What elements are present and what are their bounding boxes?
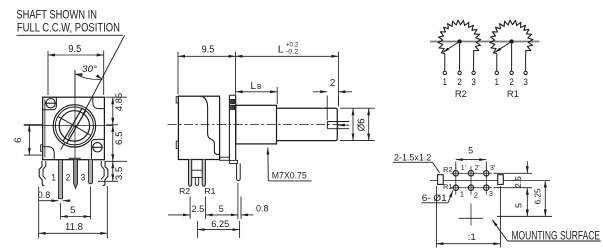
front view body outline [43, 97, 105, 160]
svg-text::1: :1 [468, 232, 476, 243]
svg-text:1: 1 [495, 77, 500, 87]
corner pocket top-left with screw [43, 97, 57, 110]
svg-text:9.5: 9.5 [68, 44, 81, 55]
corner pocket bottom-right with screw [91, 139, 104, 159]
pin 1 front [59, 160, 63, 199]
body bottom boss [69, 158, 80, 160]
svg-text:2: 2 [474, 191, 478, 200]
svg-text:3: 3 [523, 77, 528, 87]
dim 5 hole spacing [455, 162, 457, 170]
dim 6.25 side [197, 221, 199, 238]
svg-text:R1: R1 [507, 89, 519, 99]
svg-text:FULL C.C.W, POSITION: FULL C.C.W, POSITION [17, 22, 120, 34]
mounting plate [228, 95, 230, 160]
dim dia6 shaft [340, 107, 375, 109]
svg-text:1: 1 [443, 77, 448, 87]
front centerline vertical [74, 70, 76, 167]
dim 9.5 side [177, 52, 179, 95]
dim 6 front left [24, 124, 42, 126]
slot pointer arrow [338, 124, 349, 126]
svg-text:2.5: 2.5 [513, 176, 523, 188]
chassis tab sections [231, 99, 235, 103]
svg-text:L: L [251, 81, 257, 92]
svg-text:Ø6: Ø6 [356, 118, 367, 131]
svg-text:3: 3 [489, 189, 493, 198]
corner pocket bottom-left arc [43, 147, 55, 160]
leader from note to shaft slot [16, 34, 123, 36]
svg-text:B: B [257, 84, 262, 91]
dim 11.8 overall width [38, 187, 40, 239]
rect hole left 1.5x1.2 [438, 175, 444, 185]
svg-text:R2: R2 [179, 187, 191, 196]
side body internal hood curve [202, 96, 220, 154]
hole column centerlines [455, 166, 457, 195]
mounting surface line [459, 217, 484, 219]
shaft slot end [326, 122, 328, 129]
svg-text:0.8: 0.8 [38, 190, 51, 200]
svg-text:5: 5 [468, 146, 473, 157]
svg-text:3: 3 [81, 173, 86, 183]
side body left tabs [176, 97, 178, 103]
step between body and plate [220, 157, 230, 160]
side centerline [168, 124, 345, 126]
svg-text:3: 3 [471, 77, 476, 87]
R2 terminal circles [443, 71, 446, 74]
pin 3 front [89, 160, 93, 184]
shaft slot lines at 30 deg [63, 108, 83, 142]
svg-text:0.8: 0.8 [256, 204, 269, 214]
R2 terminal legs [444, 54, 446, 72]
hole row lines [450, 172, 492, 174]
front view mounting ear left [41, 144, 43, 152]
dim 2.5 side pins [189, 197, 191, 220]
svg-text:5: 5 [219, 204, 224, 214]
dim 6.25 centerline to surface [544, 181, 546, 217]
screw bottom-right [93, 143, 102, 152]
svg-text:M7X0.75: M7X0.75 [272, 170, 307, 181]
svg-text:-0.2: -0.2 [286, 49, 299, 56]
dim 5 rows to surface [526, 188, 528, 217]
svg-text:R1: R1 [204, 187, 216, 196]
R1 wiper dot and arrow [510, 39, 514, 43]
screw top-left [46, 99, 55, 108]
potentiometer symbol R1 resistive ring [490, 20, 533, 53]
svg-text:2: 2 [509, 77, 514, 87]
dim L with tolerance [337, 52, 339, 106]
svg-text:30°: 30° [82, 64, 97, 75]
support lug left front [39, 161, 44, 185]
dim LB bushing length [276, 87, 278, 104]
dim 3.5 front right [98, 180, 118, 182]
svg-text:2: 2 [66, 173, 71, 183]
svg-text:1: 1 [51, 173, 56, 183]
svg-text:1: 1 [460, 190, 464, 199]
slot cross line perpendicular [58, 116, 91, 135]
svg-text:R1: R1 [443, 182, 453, 191]
rotor inner circle [59, 111, 89, 141]
schematic bus line [430, 41, 540, 43]
rotor ring circle [55, 107, 93, 145]
mounting lug side 0.8 [237, 163, 241, 180]
svg-text:2: 2 [457, 77, 462, 87]
dim 5 side [237, 183, 239, 219]
svg-text:6.5: 6.5 [114, 131, 125, 145]
svg-text:SHAFT SHOWN IN: SHAFT SHOWN IN [16, 10, 97, 22]
R2 wiper dot and arrow [458, 39, 462, 43]
dim 6.5 front right [105, 160, 127, 162]
mounting holes 6x dia1 [453, 171, 458, 176]
dim 4.85 front right [105, 96, 127, 98]
svg-text:2.5: 2.5 [192, 204, 205, 214]
side pins R2 R1 [189, 160, 192, 187]
R1 terminal legs [496, 54, 498, 72]
svg-text:+0.2: +0.2 [286, 41, 299, 48]
svg-text:9.5: 9.5 [202, 45, 215, 56]
support lug right front [103, 161, 108, 185]
corner pocket top-right arc [93, 97, 105, 109]
side view body outline [178, 96, 219, 159]
svg-text:R2: R2 [455, 89, 467, 99]
svg-text:L: L [278, 43, 284, 55]
shaft [277, 108, 338, 140]
dim 0.8 lug [240, 197, 242, 220]
dim 2 shaft slot [326, 96, 328, 121]
boss under plate [229, 160, 237, 163]
svg-text:6.25: 6.25 [533, 188, 543, 204]
pin 2 front (center) [74, 160, 78, 189]
svg-text:MOUNTING SURFACE: MOUNTING SURFACE [512, 228, 601, 242]
dim 2.5 row spacing [494, 172, 533, 174]
middle pin between [192, 169, 203, 171]
svg-text:2-1.5x1.2: 2-1.5x1.2 [394, 153, 431, 163]
pcb centerline horizontal [430, 180, 550, 182]
R1 terminal circles [495, 71, 498, 74]
svg-text:6: 6 [13, 138, 24, 144]
slot centerline extension lower-left [68, 126, 75, 137]
dim 1 bottom [435, 186, 437, 247]
dim 5 pin span [60, 203, 62, 220]
svg-text:2': 2' [475, 163, 481, 172]
svg-text:2: 2 [330, 78, 336, 89]
dim 30 deg angle [74, 70, 76, 96]
svg-text:6.25: 6.25 [211, 219, 229, 230]
svg-text:3': 3' [490, 163, 496, 172]
svg-text:3.5: 3.5 [114, 167, 125, 181]
svg-text:R2: R2 [443, 165, 453, 174]
rotor outer circle [53, 105, 95, 147]
svg-text:11.8: 11.8 [65, 222, 83, 233]
svg-text:1': 1' [461, 163, 467, 172]
svg-text:6- Ø1: 6- Ø1 [422, 193, 447, 203]
rect hole right 1.5x1.2 [498, 175, 504, 185]
potentiometer symbol R2 resistive ring [438, 20, 481, 53]
svg-text:5: 5 [514, 203, 524, 208]
svg-text:4.85: 4.85 [114, 93, 125, 111]
hole2 column extension down [470, 204, 472, 226]
dim 9.5 front [47, 51, 49, 95]
bushing M7 [236, 105, 277, 144]
front centerline horizontal [24, 125, 113, 127]
svg-text:5: 5 [70, 205, 76, 216]
